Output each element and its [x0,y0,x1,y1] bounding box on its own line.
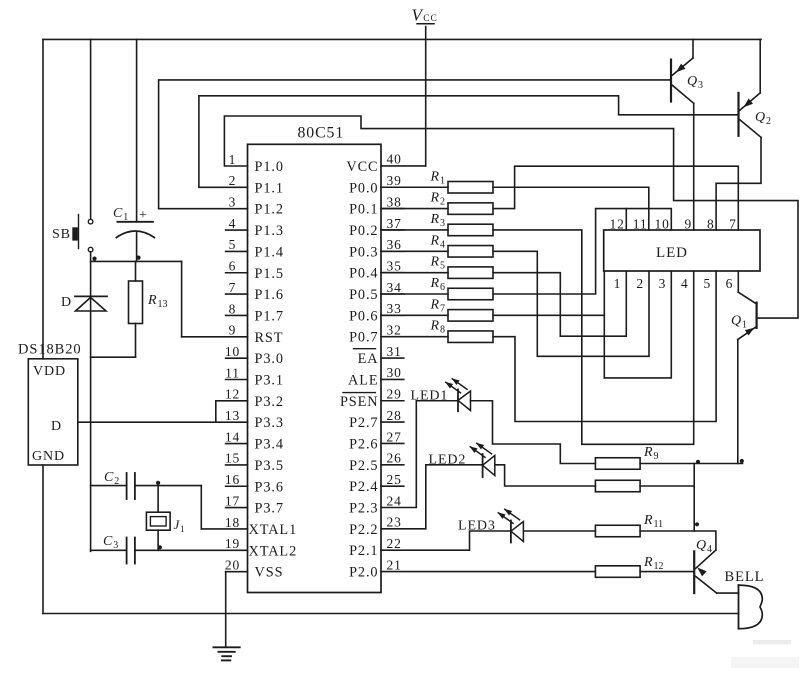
pin 29 PSEN [340,387,404,410]
svg-text:39: 39 [387,173,402,188]
pin 10 P3.0 [225,344,284,367]
pin 38 P0.1 [349,194,404,217]
wire LED pin 12 drop [625,209,627,230]
wire to RST pin 9 [182,336,248,338]
svg-text:8: 8 [229,301,237,316]
wire C2 left lead [91,485,127,487]
wire R10 output to collector rail [640,485,694,487]
svg-text:1: 1 [614,276,622,291]
pin 15 P3.5 [225,451,284,474]
pin 32 P0.7 [349,323,402,346]
resistor R3 [430,212,494,236]
pin 37 P0.2 [349,216,404,239]
wire J1 top lead [157,486,159,513]
svg-text:9: 9 [685,217,693,232]
svg-text:7: 7 [729,217,737,232]
wire R2 to LED pin 7 [493,166,738,230]
IC U1 80C51 body [248,125,382,593]
svg-text:P0.0: P0.0 [349,180,378,196]
resistor R1 [430,169,494,193]
pin 22 P2.1 [349,536,402,559]
svg-text:3: 3 [229,195,237,210]
svg-text:20: 20 [225,557,240,572]
pin 13 P3.3 [225,408,284,431]
capacitor C3 [103,534,135,564]
svg-text:P1.4: P1.4 [255,244,284,260]
wire LED2 to R10 [495,465,596,486]
wire R3 to LED pin 4 [493,230,694,444]
svg-text:38: 38 [387,194,402,209]
svg-text:4: 4 [681,276,689,291]
svg-text:33: 33 [387,301,402,316]
pin 36 P0.3 [349,237,404,260]
svg-text:P2.7: P2.7 [349,415,378,431]
wire R7 to LED pin 3 [493,314,604,316]
svg-text:XTAL1: XTAL1 [249,522,298,538]
node junction dot J1-C3 row [158,545,162,549]
capacitor C2 [104,470,135,499]
wire R13 top lead [135,261,137,281]
svg-text:3: 3 [659,276,667,291]
svg-text:P1.7: P1.7 [255,308,284,324]
svg-text:VDD: VDD [33,364,66,379]
wire R1 to LED pin 11 [493,187,649,230]
pin 26 P2.5 [349,451,404,474]
svg-text:35: 35 [387,258,402,273]
pin 35 P0.4 [349,258,404,281]
svg-text:XTAL2: XTAL2 [249,543,298,559]
svg-text:P2.5: P2.5 [349,458,378,474]
wire reset junction row [91,260,182,262]
transistor Q2 [739,93,772,137]
wire C2 right lead to XTAL1 [135,485,201,487]
wire DS18B20 D to P3.3 pin 13 [78,421,248,423]
wire P0.0 pin 39 to R1 [381,186,448,188]
wire R11 output to Q4 [640,531,716,550]
svg-text:BELL: BELL [725,569,765,585]
svg-text:P3.3: P3.3 [255,415,284,431]
svg-text:5: 5 [229,237,237,252]
svg-text:25: 25 [387,472,402,487]
svg-text:5: 5 [703,276,711,291]
IC DS18B20 [18,342,82,466]
resistor R4 [430,233,494,257]
svg-text:31: 31 [387,344,402,359]
wire P2.2 pin 23 to LED2 [381,465,483,529]
capacitor C1 [113,206,154,238]
svg-text:P2.0: P2.0 [349,565,378,581]
svg-text:23: 23 [387,515,402,530]
svg-text:LED3: LED3 [458,519,496,534]
svg-text:12: 12 [609,217,624,232]
svg-text:LED1: LED1 [411,389,449,404]
svg-text:14: 14 [225,429,240,444]
pin 33 P0.6 [349,301,404,324]
svg-text:2: 2 [229,173,237,188]
svg-text:32: 32 [387,323,402,338]
svg-text:24: 24 [387,493,402,508]
wire collector rail R9-R11 [693,464,695,532]
pin 11 P3.1 [225,365,284,388]
pin 34 P0.5 [349,280,404,303]
svg-text:9: 9 [229,323,237,338]
wire R5 to LED pin 1 [493,271,626,336]
svg-text:P0.3: P0.3 [349,244,378,260]
wire P2.0 pin 21 to R12 [381,571,595,573]
pin 1 P1.0 [229,152,284,175]
wire P0.4 pin 35 to R5 [381,272,448,274]
wire R12 to Q4 base [640,571,694,573]
diode D [61,295,107,311]
resistor R10 [595,480,640,492]
svg-text:DS18B20: DS18B20 [18,342,82,358]
svg-text:P0.5: P0.5 [349,287,378,303]
pin 6 P1.5 [226,259,284,282]
svg-text:19: 19 [225,536,240,551]
pin 2 P1.1 [229,173,284,196]
pin 28 P2.7 [349,408,404,431]
wire P0.7 pin 32 to R8 [381,336,448,338]
pin 4 P1.3 [226,216,284,239]
wire LED pin 6 to Q1 collector [737,271,739,292]
svg-text:30: 30 [387,365,402,380]
wire R9 output row [640,463,742,465]
svg-text:7: 7 [229,280,237,295]
wire GND rail from DS18B20 GND to bottom [42,465,44,614]
wire Q1 emitter down to R9 row [737,340,739,464]
resistor R13 [129,281,168,324]
svg-text:VCC: VCC [346,159,378,175]
svg-text:P0.4: P0.4 [349,266,378,282]
svg-text:P3.0: P3.0 [255,351,284,367]
wire P0.1 pin 38 to R2 [381,208,448,210]
wire SB to reset junction rail [90,252,92,551]
wire P2.1 pin 22 to LED3 [381,531,511,550]
resistor R8 [430,319,494,343]
pin 40 VCC [346,152,401,175]
svg-text:36: 36 [387,237,402,252]
resistor R5 [430,255,494,279]
pin 5 P1.4 [226,237,284,260]
pin 21 P2.0 [349,557,402,580]
svg-text:PSEN: PSEN [340,394,379,410]
svg-text:P1.3: P1.3 [255,223,284,239]
svg-text:VSS: VSS [255,565,284,581]
pin 9 RST [229,323,284,346]
pin 24 P2.3 [349,493,402,516]
wire VSS pin 20 to ground [225,572,227,648]
wire R6 to LED pins 10 and 12 [493,209,671,294]
svg-text:P1.1: P1.1 [255,180,284,196]
resistor R2 [430,191,494,215]
pin 20 VSS [225,557,284,580]
svg-text:11: 11 [225,365,240,380]
svg-text:P0.7: P0.7 [349,330,378,346]
pin 18 XTAL1 [225,515,297,538]
node junction dot J1-C2 row [156,481,160,485]
wire Q4 emitter to bell [717,592,739,594]
svg-text:P0.2: P0.2 [349,223,378,239]
wire R8 to LED pin 5 [493,271,716,422]
svg-text:10: 10 [654,217,669,232]
pin 14 P3.4 [225,429,284,452]
resistor R7 [430,297,494,321]
pin 17 P3.7 [225,493,284,516]
svg-text:P2.1: P2.1 [349,543,378,559]
pin 27 P2.6 [349,429,404,452]
svg-text:26: 26 [387,451,402,466]
faint watermark [731,640,799,668]
resistor R9 [595,445,658,469]
wire VCC rail to SB [90,39,92,219]
LED LED3 [458,509,523,543]
wire C3 right lead to XTAL2 [135,549,248,551]
svg-text:15: 15 [225,451,240,466]
svg-text:11: 11 [633,217,648,232]
svg-text:SB: SB [52,227,71,242]
wire R13 bottom lead [135,324,137,358]
svg-text:LED: LED [656,245,688,261]
wire R4 to LED pin 2 [493,251,649,356]
svg-text:P3.1: P3.1 [255,373,284,389]
wire Q2 collector to LED pin 8 [716,137,761,230]
wire P0.3 pin 36 to R4 [381,250,448,252]
svg-text:GND: GND [32,449,65,464]
node junction dot R9 row at collector rail [696,460,700,464]
svg-text:P0.1: P0.1 [349,202,378,218]
resistor R6 [430,276,494,300]
svg-text:P3.5: P3.5 [255,458,284,474]
svg-text:4: 4 [229,216,237,231]
svg-text:D: D [51,419,62,434]
pin 39 P0.0 [349,173,402,196]
svg-text:21: 21 [387,557,402,572]
svg-text:27: 27 [387,429,402,444]
svg-text:P2.4: P2.4 [349,479,378,495]
svg-text:16: 16 [225,472,240,487]
resistor R12 [595,555,663,577]
pin 23 P2.2 [349,515,402,538]
wire P0.6 pin 33 to R7 [381,314,448,316]
svg-text:EA: EA [358,351,379,367]
svg-text:13: 13 [225,408,240,423]
svg-text:P1.5: P1.5 [255,266,284,282]
pin 7 P1.6 [226,280,284,303]
wire C3 left lead [91,549,127,551]
node junction dot R11 row at collector rail [695,522,699,526]
svg-text:34: 34 [387,280,402,295]
svg-text:+: + [139,208,148,223]
wire P1.0 pin1 to Q1 base [224,116,798,318]
LED LED2 [429,443,495,477]
svg-text:P3.6: P3.6 [255,479,284,495]
svg-text:P1.6: P1.6 [255,287,284,303]
node junction dot SB-C1 row left [92,257,96,261]
svg-text:P2.2: P2.2 [349,522,378,538]
wire bottom GND rail to bell [43,613,739,615]
svg-text:D: D [61,295,72,310]
wire Q2 emitter to VCC rail [759,39,761,93]
svg-text:6: 6 [726,276,734,291]
svg-text:40: 40 [387,152,402,167]
wire LED1 to R9 [471,401,596,464]
svg-text:ALE: ALE [348,372,379,388]
svg-text:P3.7: P3.7 [255,501,284,517]
svg-text:29: 29 [387,387,402,402]
wire J1 bottom lead [157,530,159,550]
pin 16 P3.6 [225,472,284,495]
pin 12 P3.2 [225,387,284,410]
svg-text:P2.3: P2.3 [349,501,378,517]
svg-text:80C51: 80C51 [298,125,345,142]
svg-text:RST: RST [255,330,284,346]
svg-text:12: 12 [225,387,240,402]
svg-text:P3.4: P3.4 [255,437,284,453]
wire Q3 collector to LED pin 9 [693,103,695,230]
node junction dot C1 lead [136,256,140,260]
node junction dot R9 row at Q1 emitter [740,459,744,463]
pin 31 EA [354,344,404,367]
svg-text:28: 28 [387,408,402,423]
wire P0.2 pin 37 to R3 [381,229,448,231]
svg-text:P1.0: P1.0 [255,159,284,175]
pin 8 P1.7 [226,301,284,324]
wire P3.2 pin 12 jog to D line [216,400,248,402]
wire VCC top rail [43,38,761,40]
wire P2.3 pin 24 to LED1 [381,401,458,508]
svg-text:2: 2 [636,276,644,291]
svg-text:10: 10 [225,344,240,359]
svg-text:6: 6 [229,259,237,274]
wire P1.2 pin3 to Q3 base [159,80,671,209]
wire Q3 emitter to VCC rail [692,39,694,58]
transistor Q4 [694,538,717,593]
display LED block [604,230,760,271]
wire P1.1 pin2 to Q2 base [199,96,739,188]
svg-text:8: 8 [707,217,715,232]
power VCC symbol [412,6,438,25]
svg-text:P3.2: P3.2 [255,394,284,410]
wire VCC symbol to pin 40 [425,27,427,166]
pin 19 XTAL2 [225,536,297,559]
svg-text:P0.6: P0.6 [349,308,378,324]
wire C1 bottom lead [136,233,138,262]
svg-text:LED2: LED2 [429,453,467,468]
svg-text:P2.6: P2.6 [349,436,378,452]
pin 30 ALE [348,365,404,388]
LED LED1 [411,378,471,411]
svg-text:22: 22 [387,536,402,551]
svg-text:1: 1 [229,152,237,167]
crystal J1 [146,512,184,534]
buzzer BELL [725,569,765,629]
wire VCC rail to DS18B20 VDD [42,39,44,358]
wire LED3 to R11 [523,530,595,532]
wire P0.5 pin 34 to R6 [381,293,448,295]
pin 25 P2.4 [349,472,404,495]
resistor R11 [595,513,663,537]
svg-text:17: 17 [225,493,240,508]
wire C1 top lead to VCC rail [136,39,138,221]
transistor Q3 [671,58,703,103]
switch SB [52,215,93,252]
pin 3 P1.2 [229,195,284,218]
svg-text:37: 37 [387,216,402,231]
svg-text:P1.2: P1.2 [255,202,284,218]
ground [214,647,240,660]
svg-text:18: 18 [225,515,240,530]
transistor Q1 [731,292,757,339]
